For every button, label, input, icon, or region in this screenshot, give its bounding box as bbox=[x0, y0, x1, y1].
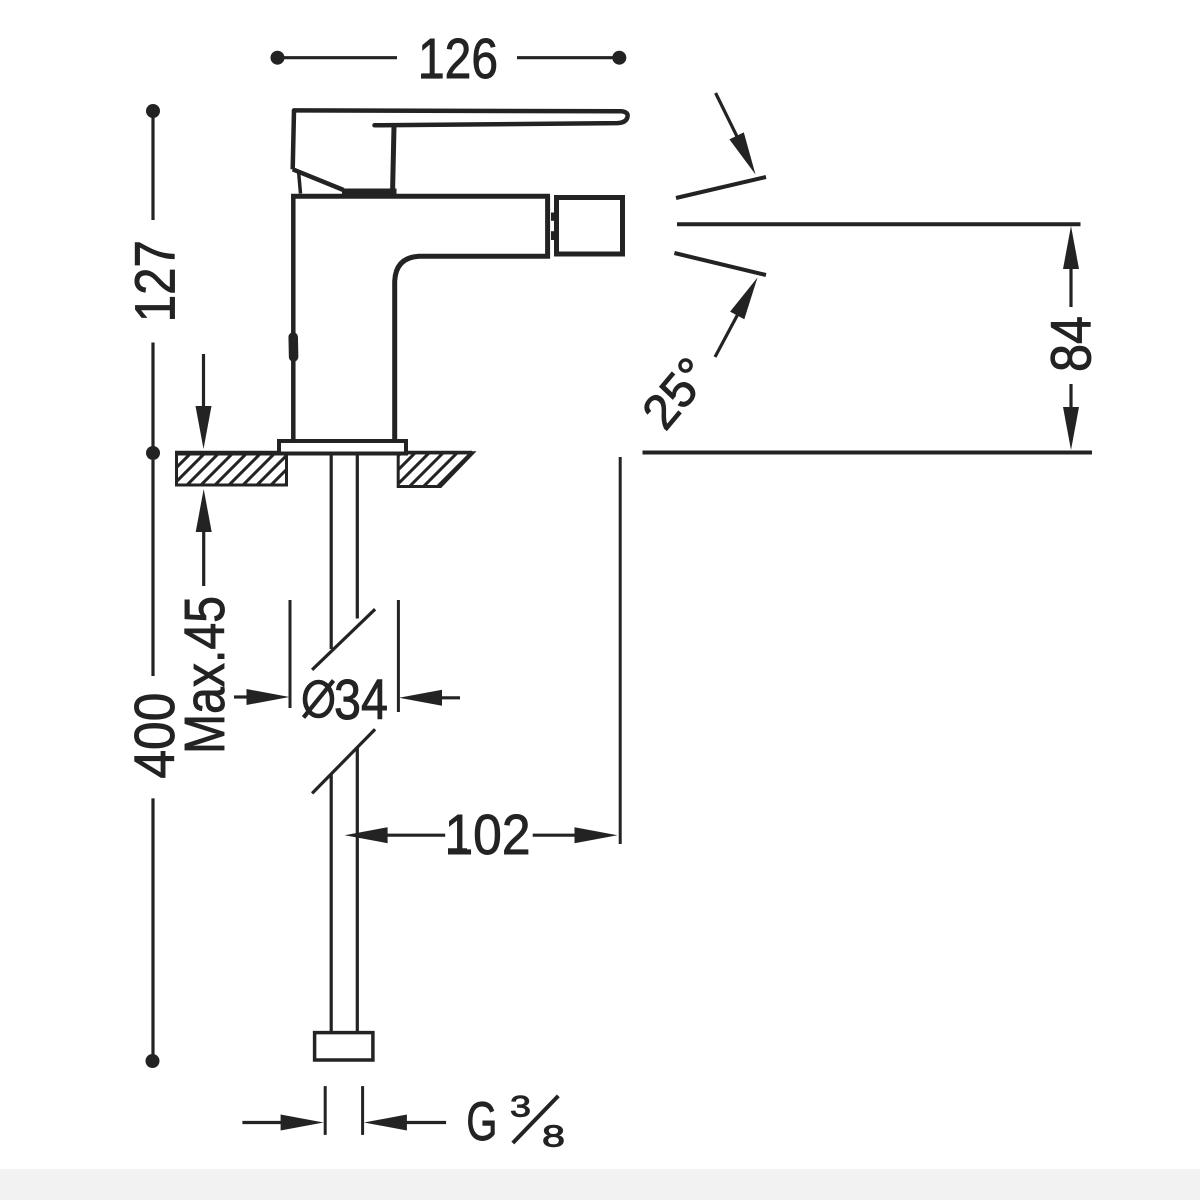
svg-text:3: 3 bbox=[510, 1091, 531, 1124]
hose end nut bbox=[315, 1033, 373, 1060]
dim 84 bottom arrowhead (down) bbox=[1063, 407, 1079, 450]
dim 84 top arrowhead (up) bbox=[1063, 226, 1079, 269]
dim 400 bottom dot bbox=[146, 1054, 160, 1068]
dim G3/8 right arrow shaft bbox=[406, 1121, 446, 1124]
lever base bottom diagonal bbox=[293, 169, 344, 190]
cartridge cover front edge bbox=[393, 127, 394, 191]
deck hatched section left bbox=[177, 454, 287, 485]
spray angle lower leader line bbox=[715, 313, 739, 357]
svg-text:126: 126 bbox=[418, 27, 498, 91]
dim 400 line upper segment bbox=[151, 460, 154, 676]
dim Max.45 lower arrowhead (up) bbox=[196, 489, 212, 532]
dim 102 right arrowhead (right) bbox=[575, 827, 618, 843]
svg-text:84: 84 bbox=[1040, 316, 1104, 372]
svg-text:102: 102 bbox=[445, 803, 531, 867]
dim Max.45 upper arrow shaft bbox=[202, 354, 205, 408]
dim 102 right shaft bbox=[533, 834, 576, 837]
pipe break slash lower bbox=[312, 729, 375, 793]
svg-text:34: 34 bbox=[334, 668, 388, 732]
svg-text:8: 8 bbox=[542, 1119, 565, 1154]
supply pipe right line lower bbox=[356, 748, 359, 1032]
dim Max.45 upper arrowhead (down) bbox=[196, 406, 212, 449]
dim O34 right arrow shaft bbox=[441, 696, 460, 699]
faucet spout right edge bbox=[545, 196, 550, 259]
spray angle lower leader arrowhead bbox=[730, 278, 757, 320]
lever handle top edge bbox=[294, 110, 628, 125]
dim Max.45 lower arrow shaft bbox=[202, 530, 205, 586]
dim 127 bottom dot shared with dim 400 bbox=[146, 446, 160, 460]
svg-text:G: G bbox=[466, 1090, 497, 1152]
svg-text:127: 127 bbox=[123, 240, 187, 322]
dim 126 dimension line left segment bbox=[279, 56, 397, 59]
dim 84 upper shaft bbox=[1069, 268, 1072, 307]
faucet base flange bbox=[279, 441, 406, 454]
dim O34 left arrow shaft bbox=[234, 695, 248, 698]
supply pipe left line lower bbox=[330, 774, 333, 1032]
dim 126 right dot bbox=[612, 51, 626, 65]
faucet body side detail blob bbox=[288, 337, 298, 357]
dim O34 left extension line bbox=[289, 600, 292, 708]
svg-text:Max.45: Max.45 bbox=[173, 596, 237, 754]
supply pipe left line upper bbox=[330, 453, 333, 649]
dim 400 line lower segment bbox=[151, 798, 154, 1060]
dim 102 right extension line bbox=[619, 457, 622, 844]
label fraction slash bbox=[513, 1096, 559, 1143]
faucet body left edge bbox=[291, 194, 296, 441]
dim G3/8 left arrowhead (right) bbox=[281, 1115, 324, 1131]
dim 127 line lower segment bbox=[151, 343, 154, 454]
aerator gap tick lower bbox=[551, 231, 556, 240]
faucet spout bottom edge and curve into pedestal bbox=[395, 256, 550, 441]
spray lower boundary line bbox=[674, 253, 766, 275]
dim 102 left arrowhead (left) bbox=[345, 827, 388, 843]
dim 84 lower shaft bbox=[1069, 384, 1072, 408]
floor shadow band bbox=[0, 1169, 1200, 1200]
dim 127 top dot bbox=[146, 104, 160, 118]
dim G3/8 left arrow shaft bbox=[242, 1121, 282, 1124]
spray angle upper leader line bbox=[716, 93, 738, 138]
aerator gap tick upper bbox=[551, 213, 556, 221]
dim 126 dimension line right segment bbox=[517, 56, 617, 59]
rim reference line / dim 84 bottom reference bbox=[643, 451, 1093, 455]
dim G3/8 right extension line bbox=[361, 1086, 364, 1135]
spray angle upper leader arrowhead bbox=[729, 132, 755, 174]
dim O34 left arrowhead (right) bbox=[247, 689, 290, 705]
lever base inner corner line bbox=[299, 171, 301, 194]
aerator body rectangle bbox=[557, 198, 623, 255]
dim 126 left dot bbox=[271, 51, 285, 65]
deck top line bbox=[175, 451, 472, 455]
spray centerline / dim 84 top reference bbox=[677, 222, 1081, 226]
lever base left edge bbox=[293, 110, 294, 169]
dim G3/8 right arrowhead (left) bbox=[364, 1115, 407, 1131]
supply pipe right line upper bbox=[356, 453, 359, 619]
deck hatched section right bbox=[398, 453, 473, 487]
dim O34 label bbox=[304, 668, 389, 732]
dim G3/8 left extension line bbox=[324, 1086, 327, 1135]
faucet body top edge bbox=[291, 194, 550, 199]
pipe break slash upper bbox=[312, 609, 375, 670]
dim O34 right extension line bbox=[397, 600, 400, 712]
dim 102 left shaft bbox=[386, 834, 445, 837]
spray upper boundary line bbox=[676, 177, 766, 198]
dim 127 line upper segment bbox=[151, 113, 154, 220]
dim O34 right arrowhead (left) bbox=[399, 690, 442, 706]
lever bottom thick band bbox=[342, 189, 397, 199]
